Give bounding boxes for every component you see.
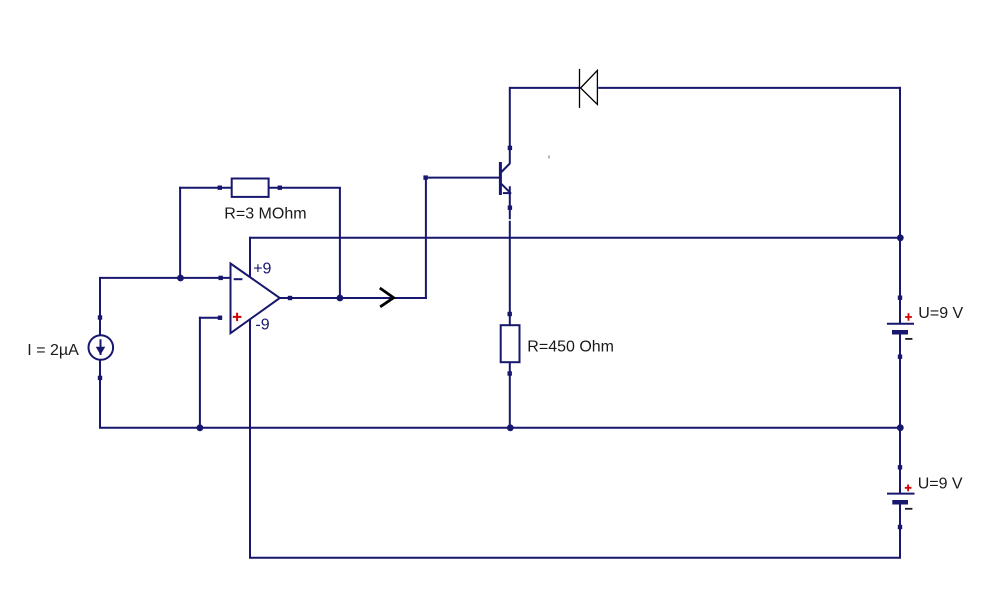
pin R2 top — [508, 312, 512, 316]
wire right column bottom — [899, 505, 901, 558]
wire current source bottom vertical — [99, 348, 101, 428]
pin op-amp inverting input — [219, 276, 223, 280]
svg-text:I = 2µA: I = 2µA — [27, 342, 79, 359]
transistor Q1 base bar — [499, 162, 502, 195]
wire rail D (-9 bottom rail) — [249, 557, 901, 559]
wire feedback right vertical — [339, 188, 341, 298]
junction node non-inverting/bottom rail — [197, 424, 204, 431]
resistor R2 R=450 Ohm body — [501, 325, 520, 362]
wire emitter vertical lower (R2 to bottom rail) — [509, 362, 511, 428]
output arrow marker — [380, 288, 394, 307]
transistor Q1 emitter arrow barbs — [503, 192, 511, 194]
pin battery B1 bottom — [898, 355, 902, 359]
wire right column middle — [899, 335, 901, 494]
svg-text:U=9 V: U=9 V — [918, 305, 963, 322]
transistor Q1 collector diagonal — [501, 163, 510, 172]
pin R1 right — [278, 186, 282, 190]
svg-text:R=450 Ohm: R=450 Ohm — [527, 338, 614, 355]
junction node rail C/right column — [897, 424, 904, 431]
battery B1 positive plate — [887, 323, 914, 325]
transistor Q1 emitter diagonal — [501, 184, 509, 192]
pin op-amp non-inverting input — [218, 316, 222, 320]
stray mark near transistor — [548, 156, 550, 159]
wire rail A left (top rail to diode) — [510, 87, 580, 89]
op-amp U1 plus input marker (red) — [233, 313, 242, 321]
junction node rail B/right column — [897, 234, 904, 241]
pin current source top — [98, 315, 102, 319]
battery B2 positive plate — [887, 493, 915, 495]
pin battery B2 top — [898, 465, 902, 469]
wire feedback left vertical — [179, 187, 181, 278]
wire base horizontal — [426, 177, 500, 179]
diode D1 cathode bar — [579, 69, 581, 108]
junction node feedback/inverting input — [177, 275, 184, 282]
pin transistor emitter — [508, 206, 512, 210]
wire emitter vertical upper — [509, 186, 511, 326]
battery B2 minus sign — [905, 508, 912, 510]
wire rail C (ground/bottom rail) — [99, 427, 901, 429]
wire right column top — [899, 87, 901, 323]
pin transistor base — [423, 175, 427, 179]
current source I1 arrow — [100, 339, 102, 355]
battery B1 minus sign — [905, 338, 912, 340]
svg-text:-9: -9 — [255, 316, 269, 333]
junction node op-amp output/feedback — [337, 295, 344, 302]
pin op-amp output — [288, 296, 292, 300]
diode D1 triangle — [581, 70, 598, 104]
pin battery B1 top — [898, 296, 902, 300]
battery B2 plus sign (red) — [905, 485, 912, 492]
wire -9 vertical from op-amp to bottom rail — [249, 319, 251, 558]
pin battery B2 bottom — [898, 525, 902, 529]
wire rail B (+9 supply rail) — [249, 237, 901, 239]
svg-text:R=3 MOhm: R=3 MOhm — [224, 205, 306, 222]
wire feedback top horizontal — [179, 187, 341, 189]
wire +9 vertical into op-amp — [249, 237, 251, 278]
op-amp U1 minus input marker — [234, 278, 243, 280]
wire current source top vertical — [99, 277, 101, 347]
wire non-inverting input vertical — [199, 317, 201, 428]
pin transistor collector — [508, 146, 512, 150]
wire collector vertical — [509, 87, 511, 163]
junction node R2/bottom rail — [507, 424, 514, 431]
svg-text:+9: +9 — [253, 260, 271, 277]
pin R2 bottom — [508, 371, 512, 375]
battery B1 plus sign (red) — [905, 313, 912, 321]
wire rail A right (diode to right column) — [598, 87, 901, 89]
pin current source bottom — [98, 376, 102, 380]
wire op-amp output horizontal — [279, 297, 427, 299]
battery B2 negative plate — [892, 500, 908, 505]
pin R1 left — [218, 186, 222, 190]
battery B1 negative plate — [892, 330, 908, 335]
op-amp U1 triangle — [231, 264, 280, 334]
wire non-inverting input horizontal — [199, 317, 221, 319]
svg-text:U=9 V: U=9 V — [918, 476, 963, 493]
wire base vertical down to op-amp output — [425, 177, 427, 299]
resistor R1 R=3 MOhm body — [232, 179, 269, 197]
wire inverting input horizontal — [99, 277, 230, 279]
current source I1 circle — [89, 335, 114, 360]
